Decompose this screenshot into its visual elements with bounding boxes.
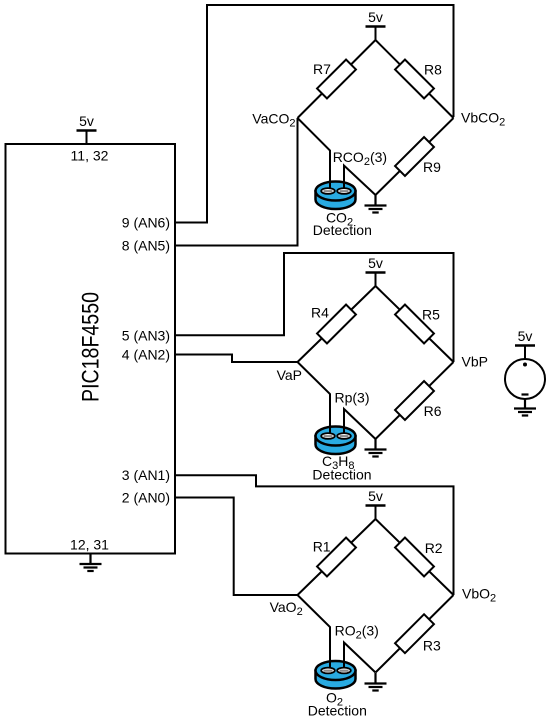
svg-text:R3: R3 [423,638,441,654]
power 5v at C3H8 bridge [366,255,386,286]
svg-text:4 (AN2): 4 (AN2) [122,347,170,363]
wire sensor right terminal to bridge bottom node [344,643,376,673]
svg-text:12, 31: 12, 31 [70,537,109,553]
sensor RCO2 cylinder [316,182,356,210]
svg-text:R1: R1 [313,539,331,555]
sensor hole right (CO2) [337,188,351,194]
svg-text:R4: R4 [311,305,329,321]
sensor hole right (C3H8) [337,433,351,439]
wire AN5 to VaCO2 [175,118,298,246]
bridge diamond CO2 [298,40,454,195]
wire AN1 over bottom bridge to VbO2 [175,475,454,595]
svg-text:R9: R9 [423,159,441,175]
wire source to ground [524,399,526,407]
ground at CO2 bridge bottom [365,195,387,213]
microcontroller U1 PIC18F4550 box [6,144,176,554]
sensor Rp cylinder [316,427,356,455]
ground at O2 bridge bottom [365,673,387,691]
resistor R6 [395,381,434,420]
wire sensor right terminal to bridge bottom node [344,166,376,196]
minus mark inside source [522,393,529,395]
power 5v at CO2 bridge [366,9,386,40]
svg-text:3 (AN1): 3 (AN1) [122,467,170,483]
wire VaCO2 to sensor left terminal [298,118,331,190]
bridge diamond C3H8 [298,286,454,439]
resistor R5 [395,305,434,344]
svg-text:Detection: Detection [308,703,367,719]
wire VaO2 to sensor left terminal [298,595,331,669]
svg-text:Detection: Detection [313,222,372,238]
ground at C3H8 bridge bottom [365,439,387,457]
svg-text:VaP: VaP [277,367,302,383]
svg-text:5 (AN3): 5 (AN3) [122,327,170,343]
sensor hole left (O2) [321,668,335,674]
svg-text:11, 32: 11, 32 [71,147,109,163]
wire AN2 to VaP [175,355,298,363]
wire AN6 to top rail to VbCO2 [175,5,454,223]
sensor hole right (O2) [337,668,351,674]
sensor hole left (CO2) [321,188,335,194]
ground at PIC bottom [80,554,102,572]
power 5v at source [515,328,535,359]
voltage source V1 circle [505,359,545,399]
svg-text:R7: R7 [313,61,331,77]
sensor RO2 cylinder [316,661,356,689]
svg-text:2 (AN0): 2 (AN0) [122,490,170,506]
resistor R1 [317,538,356,577]
svg-text:VbP: VbP [462,354,488,370]
bridge diamond O2 [298,519,454,673]
svg-text:R5: R5 [422,307,440,323]
svg-text:R8: R8 [424,62,442,78]
power 5v at PIC top [77,113,97,144]
resistor R9 [395,137,434,176]
wire sensor right terminal to bridge bottom node [344,409,376,439]
svg-text:R2: R2 [425,540,443,556]
wire AN0 to VaO2 [175,498,298,596]
svg-text:Detection: Detection [312,467,371,483]
resistor R4 [317,305,356,344]
resistor R3 [395,614,434,653]
svg-text:9 (AN6): 9 (AN6) [122,215,170,231]
wire VaP to sensor left terminal [298,362,331,435]
resistor R8 [395,60,434,99]
power 5v at O2 bridge [366,488,386,519]
svg-text:PIC18F4550: PIC18F4550 [78,292,105,402]
svg-text:Rp(3): Rp(3) [335,390,370,406]
resistor R7 [317,60,356,99]
wire AN3 over middle bridge to VbP [175,253,454,362]
resistor R2 [395,538,434,577]
svg-text:R6: R6 [424,403,442,419]
sensor hole left (C3H8) [321,433,335,439]
ground at source [514,398,536,416]
plus dot inside source [523,363,527,367]
svg-text:8 (AN5): 8 (AN5) [122,238,170,254]
